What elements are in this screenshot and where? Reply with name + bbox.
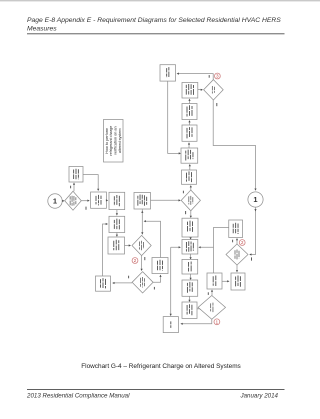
svg-text:Flowchart G-4 – Refrigerant Ch: Flowchart G-4 – Refrigerant Charge on Al… bbox=[81, 363, 241, 370]
label Yes at Db bottom bbox=[144, 257, 146, 260]
process box E2 bbox=[134, 193, 151, 210]
svg-text:2: 2 bbox=[241, 240, 244, 245]
wire B7 down to B8 bbox=[190, 254, 192, 260]
process box B7 bbox=[182, 240, 198, 255]
wire D to Db bbox=[125, 244, 132, 246]
label No at De top bbox=[207, 292, 209, 295]
label No at D1 top bbox=[208, 75, 210, 78]
process box B6 bbox=[182, 218, 198, 237]
red circled 1 near De bottom bbox=[214, 319, 220, 325]
wire B6 down to B7 bbox=[190, 237, 192, 240]
wire F loop to E2-Db line bbox=[144, 220, 161, 257]
wire E2 down to Db with F junction bbox=[141, 209, 143, 234]
process box M bbox=[229, 220, 243, 238]
svg-text:3: 3 bbox=[216, 74, 219, 79]
label Yes at D2r bottom bbox=[185, 211, 187, 214]
wire Bb down to C bbox=[116, 210, 118, 216]
label No at Da top bbox=[70, 186, 72, 189]
svg-text:verification on an: verification on an bbox=[114, 126, 118, 155]
label No at Dc right bbox=[153, 287, 155, 290]
label No at D2r top bbox=[182, 191, 184, 194]
process box B8 bbox=[182, 259, 198, 274]
svg-text:2: 2 bbox=[134, 258, 137, 263]
footer rule bbox=[27, 389, 285, 391]
connector circle 1 left bbox=[48, 194, 62, 208]
decision D1 bbox=[204, 80, 224, 100]
process box D bbox=[108, 237, 125, 254]
wire Dd Yes down to N bbox=[236, 265, 238, 272]
process box E1 bbox=[69, 167, 83, 183]
svg-text:1: 1 bbox=[216, 320, 219, 325]
wire Da No up to E1 bbox=[73, 183, 75, 192]
connector circle 1 right bbox=[248, 192, 263, 207]
process box G bbox=[182, 302, 197, 318]
wire De bottom to End bbox=[180, 319, 211, 325]
process box B9 bbox=[182, 280, 198, 296]
process box N bbox=[231, 273, 245, 290]
svg-text:1: 1 bbox=[253, 195, 257, 204]
page top edge shading bbox=[0, 0, 320, 1]
red circled 3 bbox=[215, 73, 221, 79]
process box B1 bbox=[182, 83, 198, 99]
label Yes at D1 bottom bbox=[216, 103, 218, 106]
svg-text:2013 Residential Compliance Ma: 2013 Residential Compliance Manual bbox=[26, 393, 130, 400]
wire B9 down to G bbox=[188, 296, 190, 302]
wire B4 to B3 bbox=[188, 142, 190, 148]
wire Da Yes to A bbox=[81, 200, 89, 202]
svg-text:Measures: Measures bbox=[27, 26, 57, 33]
wire G to De bbox=[197, 308, 202, 310]
svg-text:Page E-8 Appendix E - Require: Page E-8 Appendix E - Requirement Diagra… bbox=[27, 17, 281, 24]
wire long line to End and B7 bbox=[170, 246, 181, 316]
wire E1 to A top bbox=[83, 175, 99, 191]
wire C down to D bbox=[116, 233, 118, 237]
wire A to B bbox=[106, 199, 108, 201]
decision Dd pass-verification bbox=[226, 244, 248, 265]
wire Dc No to W bbox=[112, 282, 132, 284]
svg-text:January 2014: January 2014 bbox=[240, 393, 279, 400]
wire T1 output down into B4 left bbox=[168, 81, 181, 154]
label Yes near Dd right bbox=[251, 257, 253, 260]
terminator End box bbox=[163, 317, 178, 333]
wire W loop up to C bbox=[103, 223, 109, 276]
wire H to N bbox=[222, 280, 230, 282]
svg-text:altered system: altered system bbox=[118, 128, 122, 153]
red circled 2 near Dd bbox=[239, 240, 245, 246]
process box B3 bbox=[182, 125, 197, 141]
wire D1 Yes to connector 1 right bbox=[213, 100, 256, 191]
wire De No up to H bbox=[211, 290, 213, 296]
process box W corrective bbox=[96, 276, 111, 291]
label No at Dd top bbox=[232, 240, 234, 243]
red circled 2 near Db bbox=[132, 258, 138, 264]
process box B2 bbox=[182, 104, 197, 120]
wire B8 down to B9 bbox=[190, 274, 192, 280]
decision De final-pass bbox=[198, 296, 225, 320]
wire Dd No up to M bbox=[236, 238, 238, 244]
wire M left elbow to B7 and H bbox=[198, 228, 228, 274]
process box B5 bbox=[182, 170, 197, 184]
wire E2 to D2r bbox=[151, 199, 181, 201]
svg-text:refrigerant charge: refrigerant charge bbox=[109, 126, 113, 156]
wire D2r down to B6 bbox=[190, 211, 192, 218]
flowchart title label box bbox=[104, 120, 124, 163]
wire Db Yes down to Dc bbox=[141, 256, 143, 271]
label Yes at Da right bbox=[85, 207, 87, 210]
decision Db airflow-ok bbox=[132, 235, 151, 255]
process box C bbox=[109, 216, 125, 232]
svg-text:1: 1 bbox=[53, 197, 57, 206]
decision Da altered-system bbox=[65, 191, 82, 210]
process box T1 bbox=[160, 65, 176, 81]
wire connector 1 down to Dd bbox=[249, 207, 256, 256]
process box Bb bbox=[109, 192, 125, 209]
wire B1 to D1 bbox=[198, 89, 203, 91]
decision D2r bbox=[181, 190, 200, 211]
wire connector 1 left to Da bbox=[62, 200, 64, 202]
header rule bbox=[27, 33, 285, 35]
wire B5 to B4 bbox=[189, 164, 191, 170]
process box F adjust bbox=[152, 258, 168, 274]
process box A bbox=[91, 192, 107, 208]
wire D1 No to T1 bbox=[177, 73, 214, 80]
wire Dc to F bbox=[153, 275, 162, 283]
wire B3 to B2 bbox=[188, 120, 190, 125]
process box B4 bbox=[181, 148, 198, 163]
wire D2r top to B5 bbox=[190, 185, 192, 190]
wire B2 to B1 bbox=[188, 99, 190, 104]
process box H bbox=[207, 273, 222, 289]
decision Dc charge-correct bbox=[132, 272, 153, 293]
label No at Dc left bbox=[128, 276, 130, 279]
svg-text:How to perform: How to perform bbox=[105, 128, 109, 154]
